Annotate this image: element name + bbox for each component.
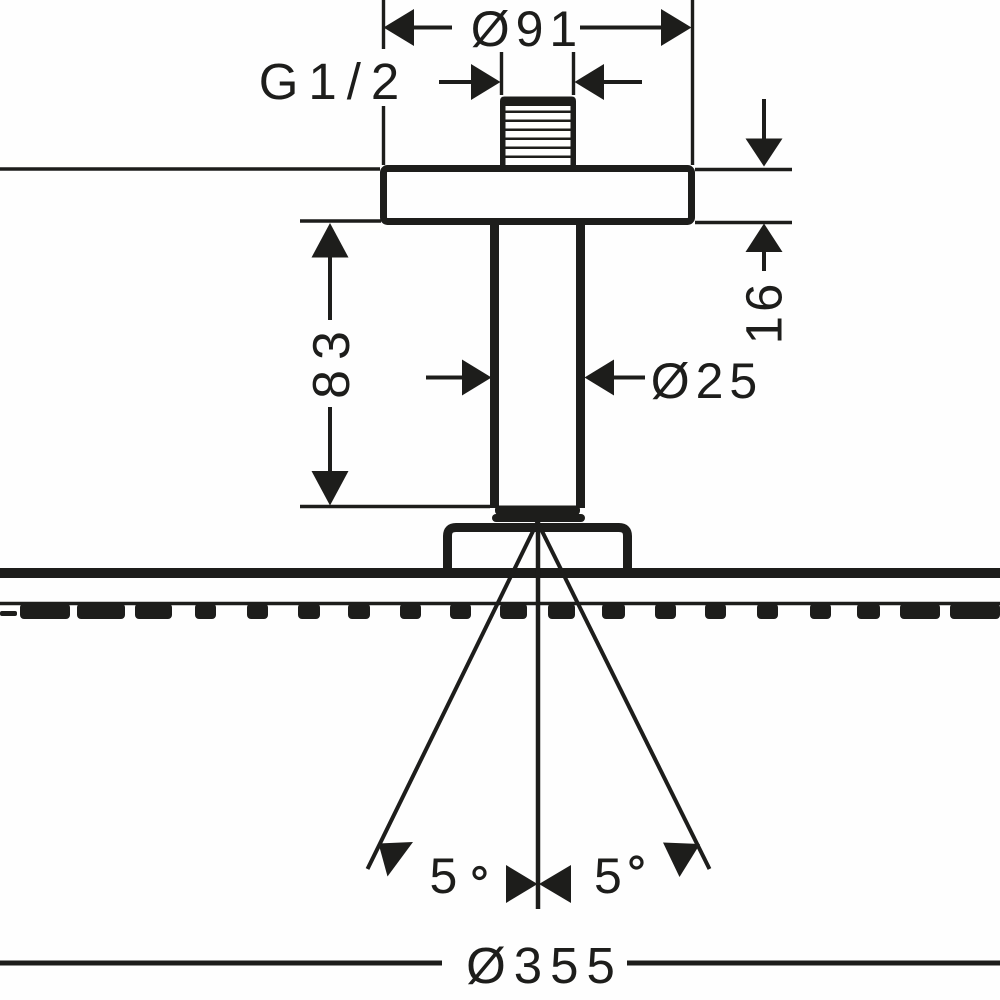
- svg-text:Ø91: Ø91: [471, 1, 584, 57]
- spray left line: [368, 522, 538, 869]
- dim 83 up arrow: [312, 223, 349, 258]
- dim 83 bottom extension: [300, 505, 490, 508]
- bowtie angle arrows at center: [506, 865, 538, 903]
- shower plate face line: [0, 602, 1000, 605]
- spray left arrowhead: [379, 842, 414, 877]
- pipe flare lower bar: [492, 514, 585, 522]
- svg-text:83: 83: [303, 321, 361, 399]
- spray right line: [538, 522, 710, 869]
- spray right arrowhead: [663, 843, 700, 878]
- dim 16 up arrow: [746, 224, 783, 253]
- dim 83 down arrow: [328, 407, 332, 472]
- svg-text:5: 5: [430, 848, 458, 904]
- shower plate top line: [0, 568, 1000, 578]
- svg-text:5: 5: [594, 848, 622, 904]
- ceiling line left: [0, 167, 380, 170]
- dim O91 line + arrows: [411, 26, 452, 30]
- pipe left wall: [490, 225, 499, 508]
- pipe right wall: [576, 225, 585, 508]
- dim O355 line: [0, 961, 442, 966]
- dim 16 down arrow: [762, 99, 766, 140]
- thread nut G1/2: [500, 97, 576, 167]
- pipe flare upper bar: [495, 506, 580, 516]
- dim O25 arrows: [426, 376, 464, 380]
- dim G1/2 arrows: [439, 80, 473, 84]
- svg-text:G1/2: G1/2: [259, 53, 410, 110]
- spray center line: [536, 522, 541, 909]
- dim O91 extension line left: [382, 0, 385, 49]
- dim O91 extension line right: [691, 0, 694, 165]
- svg-text:Ø25: Ø25: [651, 353, 764, 409]
- svg-text:16: 16: [736, 280, 793, 345]
- flange bottom extension left (83 top): [300, 219, 381, 222]
- flange (ceiling plate of connector): [384, 169, 692, 222]
- flange bottom extension right (16 bottom): [695, 221, 792, 224]
- dim G1/2 extension lines: [500, 52, 503, 95]
- svg-text:Ø355: Ø355: [466, 937, 623, 994]
- nozzles row: [0, 604, 1000, 620]
- ceiling line right extension (16 top): [695, 168, 792, 171]
- escutcheon (bottom flange): [448, 528, 628, 579]
